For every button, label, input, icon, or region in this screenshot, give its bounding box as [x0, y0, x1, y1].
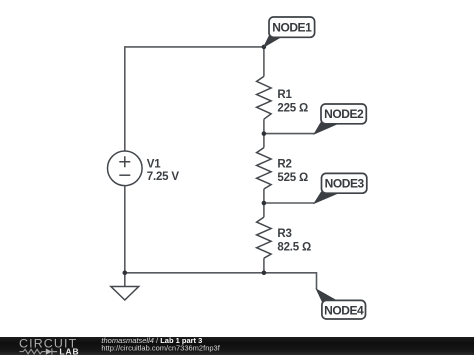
junction dot node A (NODE1 tap): [262, 45, 267, 50]
footer bar: [0, 337, 474, 355]
wire bottom rail from ground to NODE4 corner: [125, 273, 317, 290]
wire top-left run: V1 top up and across to NODE1 junction: [125, 47, 264, 151]
wire NODE2 stub: [264, 133, 315, 135]
junction dot node B (NODE2 tap): [262, 131, 267, 136]
footer logo diode symbol: [46, 349, 52, 355]
svg-text:NODE2: NODE2: [324, 107, 364, 121]
svg-text:7.25 V: 7.25 V: [147, 171, 180, 183]
wire R1 bottom to R2 top through NODE2 junction: [263, 119, 265, 147]
svg-text:82.5 Ω: 82.5 Ω: [277, 241, 311, 253]
svg-text:NODE3: NODE3: [325, 177, 365, 191]
node NODE3 callout: [314, 173, 366, 203]
voltage source V1: [108, 151, 143, 186]
svg-text:LAB: LAB: [59, 346, 79, 355]
svg-text:V1: V1: [147, 159, 161, 171]
ground: [111, 287, 139, 301]
label R2 value 525 ohm: [277, 159, 308, 184]
svg-text:225 Ω: 225 Ω: [277, 102, 308, 114]
node NODE4 callout: [317, 289, 366, 319]
svg-text:R2: R2: [277, 159, 291, 171]
svg-text:525 Ω: 525 Ω: [277, 172, 308, 184]
wire R2 bottom to R3 top through NODE3 junction: [263, 189, 265, 217]
svg-text:R1: R1: [277, 89, 292, 101]
junction dot node C (NODE3 tap): [262, 201, 267, 206]
resistor R2: [257, 148, 272, 189]
wire R3 bottom to bottom rail: [263, 258, 265, 273]
svg-text:NODE1: NODE1: [272, 21, 312, 35]
node NODE2 callout: [314, 104, 366, 134]
label V1 value 7.25 V: [147, 159, 180, 184]
label R1 value 225 ohm: [277, 89, 308, 114]
junction dot ground tap: [123, 271, 128, 276]
wire right rail: NODE1 junction down to R1 top: [263, 47, 265, 77]
resistor R3: [257, 217, 272, 258]
resistor R1: [257, 76, 272, 119]
junction dot node D (bottom rail / R3): [262, 271, 267, 276]
wire V1 bottom down to ground rail: [124, 186, 126, 273]
wire NODE3 stub: [264, 202, 315, 204]
svg-text:NODE4: NODE4: [324, 303, 364, 317]
wire ground stub: [124, 273, 126, 287]
footer logo resistor symbol: [20, 349, 46, 354]
node NODE1 callout: [264, 17, 315, 47]
svg-text:http://circuitlab.com/cn7336m2: http://circuitlab.com/cn7336m2fnp3f: [101, 344, 220, 353]
svg-text:R3: R3: [277, 228, 291, 240]
label R3 value 82.5 ohm: [277, 228, 311, 253]
